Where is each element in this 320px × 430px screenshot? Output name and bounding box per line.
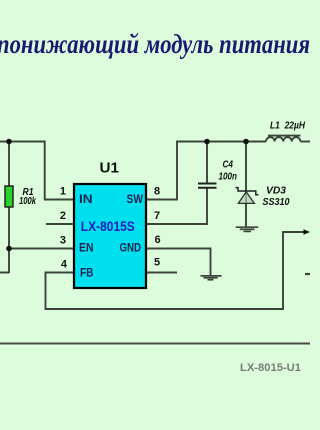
svg-text:2: 2 — [60, 210, 66, 222]
wire stub right edge — [305, 273, 310, 275]
arrow FB out — [304, 229, 311, 234]
svg-text:L1 22µH: L1 22µH — [270, 121, 306, 132]
frame line — [0, 343, 310, 345]
wire pin6 to ground — [146, 249, 211, 276]
svg-text:GND: GND — [120, 241, 142, 255]
svg-text:8: 8 — [154, 186, 160, 198]
diode VD3 schottky — [236, 188, 259, 204]
wire C4 top — [206, 142, 208, 184]
svg-text:LX-8015S: LX-8015S — [81, 219, 135, 234]
svg-text:EN: EN — [79, 241, 94, 255]
inductor L1 — [266, 136, 301, 142]
svg-text:C4: C4 — [223, 160, 234, 171]
svg-text:5: 5 — [154, 257, 160, 269]
svg-text:1: 1 — [60, 186, 66, 198]
wire IN net: left edge to corner then down to pin1 — [0, 142, 73, 200]
svg-text:FB: FB — [80, 266, 94, 280]
svg-text:U1: U1 — [100, 160, 120, 177]
node junction dot R1/pin3 — [6, 246, 12, 252]
svg-text:100k: 100k — [19, 196, 36, 207]
ground under VD3 — [236, 227, 259, 231]
node junction dot SW/VD3 — [243, 139, 249, 145]
wire pin2 stub — [46, 223, 73, 225]
wire R1 column — [0, 142, 73, 274]
wire SW rail after inductor — [301, 141, 311, 143]
resistor R1 — [5, 186, 13, 207]
wire pin5 stub — [146, 272, 177, 274]
svg-text:4: 4 — [61, 259, 68, 271]
node junction dot SW/C4 — [204, 139, 210, 145]
wire VD3 column — [245, 142, 247, 228]
op-amp U1 body (IC LX-8015S) — [74, 184, 146, 288]
capacitor C4 — [198, 184, 217, 188]
wire SW net top: pin8 riser and top rail — [146, 142, 266, 200]
svg-text:3: 3 — [60, 235, 66, 247]
svg-text:понижающий модуль питания: понижающий модуль питания — [0, 29, 310, 59]
node junction dot IN/R1 — [6, 139, 12, 145]
svg-text:6: 6 — [155, 234, 161, 246]
svg-text:100n: 100n — [219, 172, 238, 183]
svg-text:SS310: SS310 — [263, 197, 290, 208]
svg-text:LX-8015-U1: LX-8015-U1 — [240, 362, 301, 374]
svg-text:SW: SW — [127, 192, 144, 206]
svg-text:IN: IN — [79, 192, 93, 206]
svg-text:7: 7 — [154, 210, 160, 222]
wire C4 bottom to pin7 — [146, 189, 207, 225]
svg-text:VD3: VD3 — [266, 186, 286, 197]
ground pin6 — [201, 276, 222, 280]
wire FB net — [46, 232, 304, 309]
